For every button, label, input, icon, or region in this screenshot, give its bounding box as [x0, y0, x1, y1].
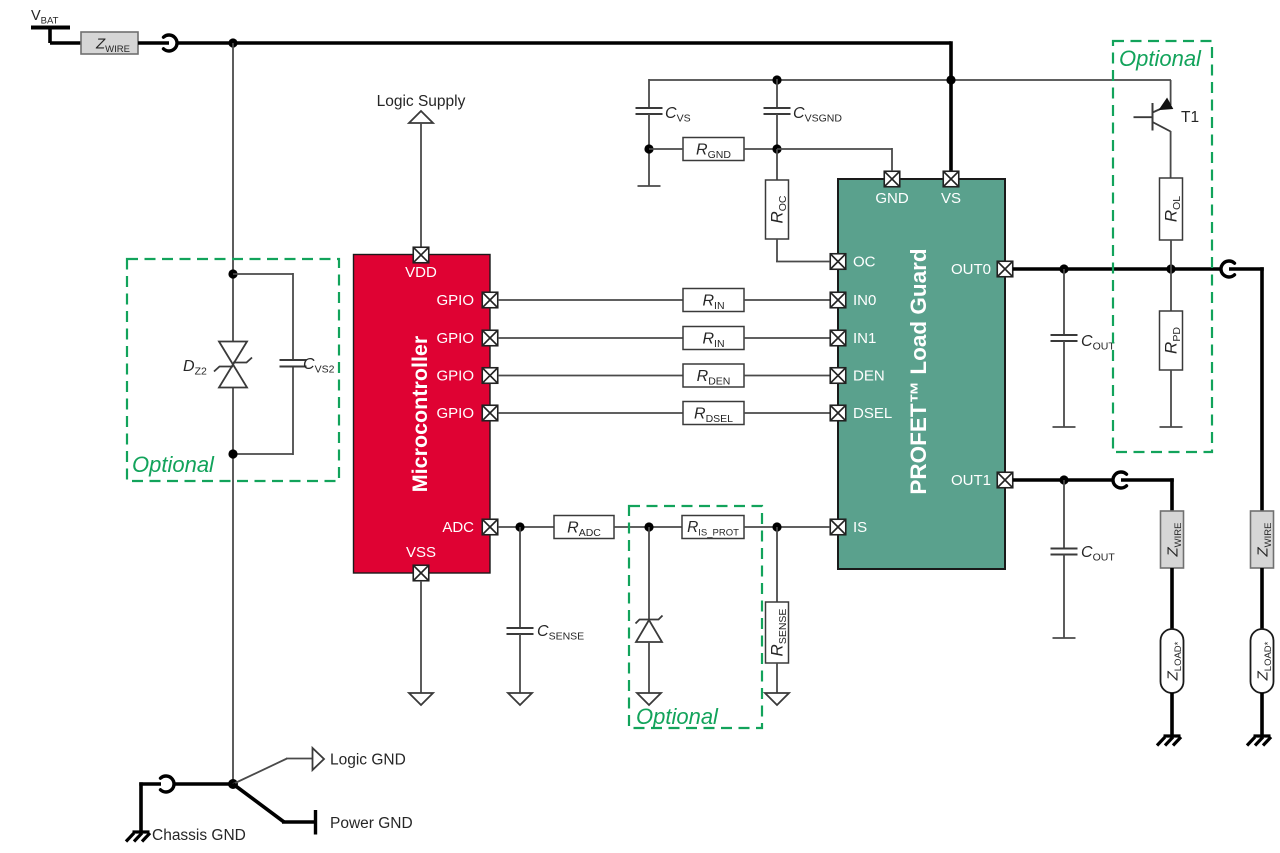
wire OUT1 connector to load — [1121, 478, 1174, 482]
load Z_LOAD* (OUT1) — [1161, 629, 1185, 693]
resistor R_OC — [776, 149, 778, 180]
pin DSEL (PROFET) — [830, 405, 846, 421]
svg-text:Optional: Optional — [636, 704, 719, 729]
capacitor C_VS2 — [280, 360, 307, 367]
resistor R_IS_PROT — [682, 516, 744, 539]
impedance Z_WIRE (supply) — [81, 32, 138, 55]
terminal Logic GND arrow — [313, 748, 325, 770]
svg-text:GND: GND — [875, 190, 909, 207]
junction C_SENSE — [515, 522, 524, 531]
optional group box (T1) — [1113, 41, 1212, 452]
wire GND net to pin — [777, 148, 892, 150]
svg-text:GPIO: GPIO — [436, 405, 474, 422]
wire GND star to connector — [173, 782, 233, 786]
label Microcontroller — [408, 335, 432, 492]
svg-text:Logic GND: Logic GND — [330, 752, 406, 769]
pin OUT1 (PROFET) — [997, 472, 1013, 488]
wire OUT0 connector to load — [1229, 267, 1264, 271]
wire R_IN to IN0 pin — [744, 299, 830, 301]
pin GPIO4 (MCU) — [482, 405, 498, 421]
impedance Z_WIRE (OUT0 load) — [1251, 511, 1275, 568]
resistor R_ADC — [554, 516, 614, 539]
svg-text:T1: T1 — [1181, 109, 1199, 126]
svg-text:IN0: IN0 — [853, 292, 876, 309]
wire VS drop — [949, 41, 953, 172]
svg-text:Logic Supply: Logic Supply — [377, 93, 466, 110]
pin GPIO2 (MCU) — [482, 330, 498, 346]
svg-text:VS: VS — [941, 190, 961, 207]
svg-text:IS: IS — [853, 519, 867, 536]
open end below C_OUT0 — [1053, 426, 1076, 428]
wire GPIO to R_IN (IN1 net) — [498, 337, 683, 339]
ground below zener — [637, 693, 661, 705]
capacitor C_VSGND — [776, 79, 778, 108]
open end below R_PD — [1160, 426, 1183, 428]
pin GPIO3 (MCU) — [482, 368, 498, 384]
junction DZ2 bottom — [228, 449, 237, 458]
chassis ground (OUT0) — [1247, 736, 1271, 746]
svg-text:Optional: Optional — [1119, 46, 1202, 71]
optional group box (DZ2/CVS2) — [127, 259, 339, 481]
svg-text:Power GND: Power GND — [330, 815, 413, 832]
svg-text:VDD: VDD — [405, 264, 437, 281]
V_BAT supply terminal — [31, 8, 81, 43]
resistor R_SENSE — [776, 527, 778, 602]
chassis ground (bottom left) — [126, 832, 150, 842]
connector OUT0 — [1221, 261, 1235, 277]
junction R_GND / R_OC / GND — [772, 144, 781, 153]
wire C_VS to R_GND — [649, 148, 683, 150]
pin IN1 (PROFET) — [830, 330, 846, 346]
pin VS (PROFET top) — [943, 171, 959, 187]
resistor R_IN — [683, 289, 744, 312]
label R_OL — [1162, 196, 1184, 222]
pin OUT0 (PROFET) — [997, 261, 1013, 277]
wire supply rail top — [177, 41, 951, 45]
optional group box (zener) — [629, 506, 762, 728]
junction C_OUT1 — [1059, 475, 1068, 484]
svg-text:DEN: DEN — [853, 368, 885, 385]
wire Z_WIRE to connector — [138, 41, 169, 45]
wire R_ADC to zener node — [614, 526, 682, 528]
wire GPIO to R_DSEL (DSEL net) — [498, 412, 683, 414]
wire R_GND to GND pin — [744, 148, 777, 150]
wire logic supply to VDD — [420, 123, 422, 248]
wire OUT0 to connector — [1013, 267, 1221, 271]
open end below C_OUT1 — [1053, 637, 1076, 639]
wire R_SENSE to ground — [776, 663, 778, 693]
resistor R_OL — [1160, 178, 1183, 240]
logic supply arrow — [409, 111, 433, 123]
open end below C_VS — [648, 149, 650, 186]
PROFET Load Guard U1 block — [838, 179, 1005, 569]
svg-text:Microcontroller: Microcontroller — [408, 335, 432, 492]
load Z_LOAD* (OUT0) — [1251, 629, 1275, 693]
junction C_OUT0 — [1059, 264, 1068, 273]
wire GPIO to R_DEN (DEN net) — [498, 375, 683, 377]
svg-text:DSEL: DSEL — [853, 405, 892, 422]
svg-text:GPIO: GPIO — [436, 292, 474, 309]
wire Z_LOAD to chassis (OUT1) — [1170, 693, 1174, 736]
ground below R_SENSE — [765, 693, 789, 705]
pin ADC (MCU) — [482, 519, 498, 535]
wire Z_WIRE to Z_LOAD (OUT0) — [1260, 568, 1264, 629]
wire left branch down (node VBAT to GND star) — [232, 43, 234, 341]
wire GPIO to R_IN (IN0 net) — [498, 299, 683, 301]
zener diode D_Z (IS clamp) — [636, 527, 663, 693]
wire R_DEN to DEN pin — [744, 375, 830, 377]
svg-text:GPIO: GPIO — [436, 330, 474, 347]
wire connector to chassis drop — [139, 782, 161, 786]
pin GPIO1 (MCU) — [482, 292, 498, 308]
wire CVS2 bottom branch — [292, 367, 294, 455]
junction VS / filter net — [946, 75, 955, 84]
impedance Z_WIRE (OUT1 load) — [1161, 511, 1185, 568]
wire ADC to R_ADC — [498, 526, 554, 528]
svg-text:OC: OC — [853, 254, 876, 271]
junction CVSGND top — [772, 75, 781, 84]
capacitor C_VS — [648, 79, 650, 108]
capacitor C_SENSE — [519, 527, 521, 628]
ground below C_SENSE — [508, 693, 532, 705]
wire R_DSEL to DSEL pin — [744, 412, 830, 414]
junction R_OL / R_PD — [1166, 264, 1175, 273]
wire top filter net — [649, 79, 1171, 81]
pin VSS (MCU bottom) — [413, 565, 429, 581]
connector OUT1 — [1113, 472, 1127, 488]
label R_PD — [1162, 327, 1184, 354]
junction C_VS / R_GND — [644, 144, 653, 153]
svg-text:OUT1: OUT1 — [951, 472, 991, 489]
wire CVS2 top branch — [233, 273, 293, 275]
resistor R_DEN — [683, 364, 744, 387]
pin IN0 (PROFET) — [830, 292, 846, 308]
junction zener D_Z — [644, 522, 653, 531]
wire R_OL to OUT0 — [1170, 240, 1172, 269]
connector (battery harness) — [164, 35, 178, 51]
svg-text:OUT0: OUT0 — [951, 261, 991, 278]
wire R_IS_PROT to IS pin — [744, 526, 830, 528]
junction DZ2 top — [228, 269, 237, 278]
label PROFET Load Guard — [906, 248, 931, 494]
chassis ground (OUT1) — [1157, 736, 1181, 746]
junction ground star — [228, 779, 238, 789]
wire DZ2 lower to GND star — [232, 388, 234, 784]
junction R_SENSE — [772, 522, 781, 531]
svg-text:IN1: IN1 — [853, 330, 876, 347]
pin OC (PROFET) — [830, 254, 846, 270]
transistor T1 (PNP) — [1134, 80, 1173, 178]
wire R_PD to open end — [1170, 370, 1172, 427]
TVS diode D_Z2 — [214, 342, 252, 388]
svg-text:Optional: Optional — [132, 452, 215, 477]
resistor R_GND — [683, 138, 744, 161]
capacitor C_OUT (OUT0) — [1063, 269, 1065, 335]
resistor R_DSEL — [683, 402, 744, 425]
pin VDD (MCU top) — [413, 247, 429, 263]
junction supply rail / DZ2 branch — [228, 38, 237, 47]
svg-text:Chassis GND: Chassis GND — [152, 827, 246, 844]
wire Z_LOAD to chassis (OUT0) — [1260, 693, 1264, 736]
wire to Power GND — [233, 784, 284, 822]
connector (chassis bond) — [161, 776, 175, 792]
wire Z_WIRE to Z_LOAD (OUT1) — [1170, 568, 1174, 629]
label R_SENSE — [768, 609, 790, 657]
capacitor C_OUT (OUT1) — [1063, 480, 1065, 549]
svg-text:GPIO: GPIO — [436, 368, 474, 385]
resistor R_PD — [1170, 269, 1172, 311]
wire R_OC to OC pin — [776, 239, 778, 262]
svg-text:ADC: ADC — [442, 519, 474, 536]
svg-text:VSS: VSS — [406, 544, 436, 561]
wire to Logic GND — [233, 759, 287, 785]
svg-text:PROFET™ Load Guard: PROFET™ Load Guard — [906, 248, 931, 494]
wire R_IN to IN1 pin — [744, 337, 830, 339]
wire OUT1 to connector — [1013, 478, 1113, 482]
wire VSS to ground — [420, 581, 422, 693]
microcontroller U-MCU block — [354, 255, 491, 574]
pin DEN (PROFET) — [830, 368, 846, 384]
ground (logic) below VSS — [409, 693, 433, 705]
terminal Power GND bar — [314, 810, 317, 835]
label R_OC — [768, 195, 790, 223]
pin IS (PROFET) — [830, 519, 846, 535]
pin GND (PROFET top) — [884, 171, 900, 187]
resistor R_IN — [683, 327, 744, 350]
